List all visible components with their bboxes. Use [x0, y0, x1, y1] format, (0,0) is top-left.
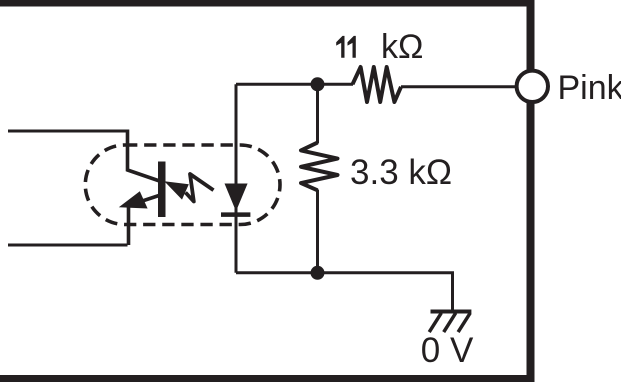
- label R1 value 11 kOhm: [336, 28, 423, 66]
- wire: R2 top lead: [316, 84, 319, 143]
- resistor R1 11 kOhm zigzag: [353, 67, 402, 102]
- terminal Pink (open circle): [517, 71, 548, 102]
- wire: R1 to Pink terminal: [401, 85, 518, 88]
- wire: left input top lead: [8, 130, 128, 133]
- svg-text:Pink: Pink: [558, 69, 621, 107]
- resistor R2 3.3 kOhm zigzag: [301, 143, 338, 191]
- wire: phototransistor collector lead: [128, 130, 162, 182]
- wire: bottom horizontal to ground drop: [236, 273, 453, 312]
- wire: LED anode/cathode vertical lead: [235, 84, 238, 272]
- svg-text:3.3 kΩ: 3.3 kΩ: [350, 153, 452, 192]
- wire: phototransistor emitter lead: [129, 195, 163, 246]
- ground symbol: [429, 312, 471, 333]
- LED D1 cathode bar: [221, 212, 250, 217]
- wire: left input bottom lead: [8, 244, 128, 247]
- node junction dot top: [311, 77, 325, 91]
- node junction dot bottom: [311, 266, 325, 280]
- phototransistor Q1 base bar: [158, 162, 166, 218]
- light arrow into phototransistor: [164, 174, 213, 202]
- wire: top horizontal from LED to resistor R1: [236, 83, 353, 86]
- enclosure border top: [0, 0, 535, 7]
- svg-text:0 V: 0 V: [421, 331, 474, 370]
- phototransistor Q1 emitter arrow: [119, 191, 148, 208]
- svg-text:kΩ: kΩ: [381, 28, 423, 66]
- optocoupler U1 dashed outline: [85, 145, 280, 225]
- wire: R2 bottom lead: [316, 190, 319, 273]
- enclosure border bottom: [0, 375, 535, 382]
- LED D1 triangle: [225, 184, 248, 212]
- enclosure border right: [527, 0, 535, 382]
